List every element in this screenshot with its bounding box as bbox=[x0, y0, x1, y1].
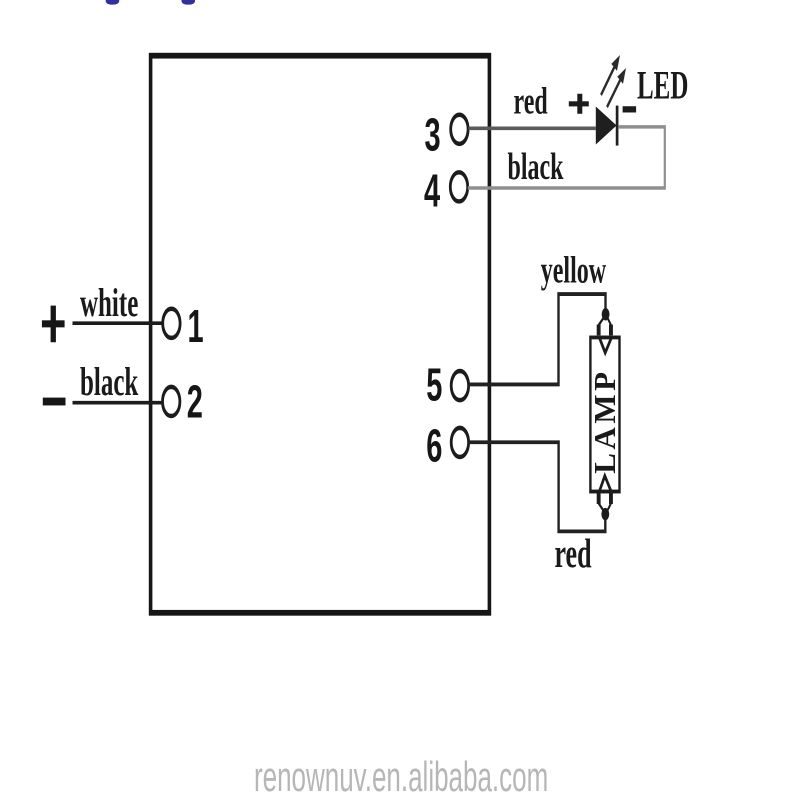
terminal 2 circle bbox=[163, 387, 180, 416]
LED D1 anode triangle bbox=[596, 107, 617, 145]
minus symbol (− input) bbox=[43, 398, 66, 406]
svg-text:red: red bbox=[514, 79, 548, 122]
lamp top splay wires bbox=[599, 318, 611, 326]
wire black: − to terminal 2 bbox=[73, 402, 164, 404]
plus symbol at LED bbox=[569, 94, 589, 114]
svg-text:4: 4 bbox=[424, 166, 440, 218]
ballast box U1 bbox=[151, 56, 490, 613]
terminal 4 circle bbox=[450, 172, 467, 201]
lamp bottom filament V bbox=[600, 476, 612, 491]
svg-text:red: red bbox=[555, 530, 592, 577]
blue cropped glyph right bbox=[182, 0, 196, 5]
lamp tube body bbox=[590, 337, 619, 491]
svg-text:white: white bbox=[80, 281, 138, 325]
lamp top pin right bbox=[609, 324, 613, 335]
svg-text:3: 3 bbox=[425, 110, 441, 162]
blue cropped glyph left bbox=[106, 0, 120, 5]
wire red: terminal 3 to LED anode bbox=[469, 127, 596, 129]
terminal 1 circle bbox=[163, 309, 180, 338]
wire red: terminal 6 down to lamp bottom bbox=[469, 442, 606, 531]
lamp top filament V bbox=[600, 338, 612, 353]
wire yellow: terminal 5 up to lamp top bbox=[469, 294, 606, 384]
svg-text:5: 5 bbox=[426, 360, 442, 412]
svg-text:6: 6 bbox=[426, 421, 442, 473]
lamp bottom splay wires bbox=[599, 503, 611, 511]
lamp top connection dot bbox=[602, 308, 610, 320]
plus symbol (+ input) bbox=[42, 306, 65, 343]
svg-text:renownuv.en.alibaba.com: renownuv.en.alibaba.com bbox=[254, 755, 548, 800]
LED D1 cathode bar bbox=[616, 106, 619, 146]
wire black: LED cathode return to terminal 4 bbox=[468, 127, 665, 188]
svg-text:LED: LED bbox=[637, 64, 688, 108]
lamp bottom connection dot bbox=[601, 508, 609, 520]
minus symbol at LED bbox=[623, 106, 637, 112]
LED emission arrow 1 bbox=[601, 55, 620, 95]
wire white: + to terminal 1 bbox=[73, 322, 164, 324]
svg-text:LAMP: LAMP bbox=[587, 368, 622, 473]
svg-text:black: black bbox=[80, 360, 139, 404]
lamp bottom pin left bbox=[597, 493, 601, 504]
lamp top pin left bbox=[597, 324, 601, 335]
lamp bottom pin right bbox=[609, 493, 613, 504]
terminal 6 circle bbox=[451, 428, 468, 457]
svg-text:yellow: yellow bbox=[541, 248, 606, 291]
terminal 3 circle bbox=[451, 115, 468, 144]
svg-text:2: 2 bbox=[187, 377, 203, 429]
LED emission arrow 2 bbox=[607, 68, 626, 107]
svg-text:black: black bbox=[508, 144, 564, 187]
terminal 5 circle bbox=[451, 371, 468, 400]
svg-text:1: 1 bbox=[188, 301, 204, 353]
